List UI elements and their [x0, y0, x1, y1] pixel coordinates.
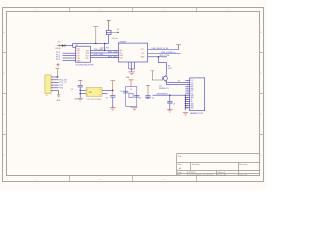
svg-text:Number: Number [192, 163, 200, 166]
junction rail-VCC [95, 43, 96, 44]
svg-text:D:\work\stc8\usb_uart.SchDoc: D:\work\stc8\usb_uart.SchDoc [187, 174, 214, 177]
svg-text:R1: R1 [168, 65, 170, 67]
svg-text:500mA: 500mA [112, 37, 119, 40]
junction on wire [169, 95, 170, 96]
junction C1-X1 pin1 [80, 90, 81, 91]
wire net to J2 [153, 94, 190, 96]
U1 left pin wires [63, 53, 76, 60]
capacitor C1 [71, 80, 83, 100]
oscillator X1 [86, 88, 102, 101]
svg-text:STC8G1K08-SOP8: STC8G1K08-SOP8 [76, 64, 95, 66]
J2 pin names [190, 80, 194, 109]
svg-text:14: 14 [186, 108, 188, 110]
svg-text:HEADER 2X7P: HEADER 2X7P [190, 112, 204, 115]
svg-text:SS210: SS210 [55, 48, 60, 50]
U2 right pin wires [148, 45, 181, 75]
capacitor C4 [134, 95, 141, 99]
svg-text:Y1: Y1 [130, 89, 132, 91]
fuse F1 [106, 29, 119, 40]
svg-text:Q1: Q1 [159, 85, 162, 87]
net labels U1-U2 wires [94, 49, 118, 58]
ground under C1 [77, 99, 83, 102]
mcu U1 [76, 45, 95, 67]
wire Q1 to J2 row2 [167, 82, 189, 84]
svg-text:P3.3: P3.3 [56, 59, 60, 61]
svg-text:13: 13 [186, 105, 188, 107]
svg-text:OSC3225-12MHZ: OSC3225-12MHZ [86, 99, 102, 101]
svg-text:P3.1_TX: P3.1_TX [59, 82, 67, 84]
svg-text:NRST: NRST [146, 98, 152, 100]
power flag 5V right [176, 44, 181, 46]
wire rail stub down [104, 43, 106, 50]
svg-text:C3: C3 [120, 91, 122, 93]
crystal Y1 [129, 89, 133, 97]
ground flag under U1 labels [56, 63, 59, 67]
svg-text:USB_D-/USB_D+: USB_D-/USB_D+ [161, 52, 177, 54]
border zone tick right [260, 53, 264, 135]
svg-text:F1: F1 [117, 29, 119, 31]
diode D1 [55, 42, 72, 50]
crystal loop wire [126, 87, 137, 107]
svg-text:GND: GND [56, 100, 61, 102]
svg-text:11: 11 [186, 101, 188, 103]
border zone numerals [3, 9, 262, 180]
svg-text:DTR_C340: DTR_C340 [94, 54, 103, 56]
ground under C7 [167, 110, 173, 113]
ground under U2 [128, 72, 135, 75]
X1 pin wires [80, 90, 113, 93]
power flag gate [151, 70, 154, 72]
svg-text:J1: J1 [46, 95, 48, 97]
svg-text:P3.2: P3.2 [59, 85, 63, 87]
svg-text:10: 10 [186, 99, 188, 101]
junction C1-X1 pin2 [80, 93, 81, 94]
svg-text:IO0: IO0 [190, 93, 193, 95]
capacitor C3 [120, 91, 128, 93]
svg-text:RXD_C340: RXD_C340 [108, 52, 118, 54]
border zone tick top [70, 8, 197, 12]
sheet outer border [3, 8, 264, 182]
svg-text:V3: V3 [142, 53, 144, 55]
svg-text:File:: File: [177, 175, 181, 177]
junctions on J2 bus [185, 95, 186, 109]
capacitor C2 [106, 81, 116, 108]
svg-text:Date:: Date: [177, 171, 182, 174]
svg-text:12: 12 [186, 103, 188, 105]
svg-text:Revision: Revision [239, 164, 248, 166]
junction U2 pin3 [158, 56, 159, 57]
svg-text:C4: C4 [139, 98, 141, 100]
power flag VBUS top [107, 21, 111, 31]
svg-text:XTAL: XTAL [126, 76, 130, 79]
svg-text:Sheet of: Sheet of [218, 171, 226, 174]
U2 bottom pins [129, 62, 135, 72]
power flag VCC [93, 27, 98, 44]
usb bridge U2 [118, 42, 147, 63]
power flag above J1 [56, 69, 60, 77]
svg-text:P55: P55 [86, 58, 89, 60]
svg-text:C7: C7 [173, 103, 175, 105]
wires U1 to U2 [90, 50, 118, 57]
svg-text:104: 104 [74, 98, 77, 100]
U1 top-left pin wire [73, 46, 76, 48]
svg-text:RST: RST [190, 87, 193, 89]
header J1 [45, 75, 53, 97]
svg-text:3V3: 3V3 [190, 91, 193, 93]
J1 net labels [59, 80, 67, 90]
svg-text:C2: C2 [106, 97, 108, 99]
border zone tick bottom [70, 176, 197, 182]
svg-text:RTS_C340: RTS_C340 [108, 56, 117, 58]
U1 left net labels [56, 52, 60, 61]
svg-text:USB_VBUS_5V_IN: USB_VBUS_5V_IN [152, 48, 169, 50]
wire Q1 to J2 row3 [167, 80, 190, 85]
title block [177, 154, 260, 176]
ground under C2 [110, 108, 116, 111]
J2 pin wires [185, 81, 189, 108]
resistor R1 label [168, 65, 173, 70]
svg-text:C1: C1 [71, 89, 73, 91]
J2 ground bus wire [184, 95, 186, 110]
svg-text:Page 1/1: Page 1/1 [239, 174, 248, 176]
svg-text:SS8050-Y1: SS8050-Y1 [159, 88, 169, 90]
title block text [177, 155, 248, 177]
net labels on U2 right wires [152, 48, 177, 57]
svg-text:Drawn By:: Drawn By: [218, 175, 228, 177]
junction J1 pin1 [57, 76, 58, 77]
ground under J2 [183, 113, 189, 116]
transistor Q1 [159, 74, 169, 90]
junction C2-X1 [112, 90, 113, 91]
wire top rail [73, 43, 109, 47]
power flag crystal [128, 80, 133, 87]
svg-text:TXD_C340: TXD_C340 [94, 49, 103, 51]
header J2 [190, 78, 205, 115]
junction stub row1 [104, 50, 105, 51]
sheet inner border [7, 12, 260, 176]
border zone tick left [3, 53, 7, 135]
svg-text:P3.3: P3.3 [59, 88, 63, 90]
svg-text:D1: D1 [58, 42, 60, 44]
ground under J1 pin6 [56, 91, 61, 102]
ground under crystal loop [130, 107, 132, 108]
capacitor C7 [167, 95, 175, 109]
svg-text:UPDI/SWDIO: UPDI/SWDIO [157, 94, 169, 96]
wire gate [152, 71, 163, 80]
J1 pin wires [51, 77, 59, 91]
wire fuse to rail [108, 35, 110, 44]
capacitor C6 [145, 85, 154, 99]
svg-text:C6: C6 [152, 98, 154, 100]
svg-text:RTS_CTRL: RTS_CTRL [160, 55, 170, 57]
J2 pin numbers [186, 80, 188, 109]
junction rail stub [104, 43, 105, 44]
